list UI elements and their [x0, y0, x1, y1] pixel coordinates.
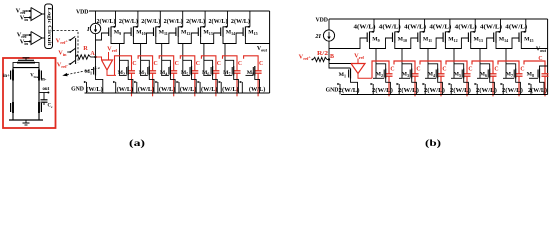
transistor M13 label (b)	[474, 37, 483, 43]
transistor M13 (PMOS, b)	[468, 19, 475, 43]
transistor M9 (PMOS, b)	[367, 19, 374, 43]
switch S3	[69, 61, 76, 65]
capacitor C lower wire (red, b)	[440, 76, 442, 96]
wire gate bus M3	[140, 74, 148, 76]
wire drain M10 ladder column	[133, 37, 149, 75]
svg-text:Logic Circuit: Logic Circuit	[46, 8, 51, 46]
svg-text:C: C	[175, 61, 179, 67]
opamp inset out wire	[39, 92, 49, 94]
transistor M5 (NMOS, b)	[449, 69, 469, 95]
wire drain M13 ladder column	[201, 37, 213, 75]
svg-text:2(W/L): 2(W/L)	[424, 87, 445, 94]
svg-text:Vout: Vout	[257, 46, 268, 53]
svg-text:Vbias: Vbias	[30, 74, 40, 80]
Vref label (red, a)	[107, 46, 117, 54]
transistor M15 2(W/L) label	[231, 18, 250, 25]
svg-text:2(W/L): 2(W/L)	[186, 18, 205, 25]
switch S1	[69, 37, 76, 41]
svg-text:2(W/L): 2(W/L)	[339, 87, 360, 94]
transistor M14 label (b)	[499, 37, 508, 43]
wire drain M15 to Vout column (b)	[521, 43, 547, 49]
wire drain M14 ladder column (b)	[496, 43, 516, 78]
svg-text:2(W/L): 2(W/L)	[164, 18, 183, 25]
capacitor C lower wire (red, b)	[388, 76, 390, 96]
caption (a)	[129, 138, 145, 148]
svg-text:VDD: VDD	[315, 18, 328, 24]
transistor M7 2(W/L) label (b)	[502, 87, 523, 94]
capacitor C lower wire (red, b)	[414, 76, 416, 96]
capacitor C (red, b)	[464, 74, 471, 76]
opamp inset Cc label	[48, 104, 53, 110]
current source I	[90, 23, 100, 33]
transistor M15 label	[248, 30, 257, 36]
wire drain M10 ladder column (b)	[395, 43, 412, 78]
svg-text:2(W/L): 2(W/L)	[231, 18, 250, 25]
red bus staple 3 (red, b)	[394, 61, 415, 74]
wire gate bus M2 (b)	[373, 77, 384, 79]
transistor M1 (NMOS, b)	[337, 69, 357, 95]
transistor M8 label	[247, 70, 254, 76]
svg-text:C: C	[217, 61, 221, 67]
capacitor C label (red)	[175, 61, 179, 67]
svg-text:M11: M11	[423, 37, 432, 43]
red bus staple 4 (red, b)	[420, 61, 441, 74]
VDD label	[76, 10, 89, 16]
opamp inset out label	[43, 87, 50, 92]
Vout column (b)	[547, 19, 549, 95]
svg-text:4(W/L): 4(W/L)	[429, 24, 451, 31]
svg-text:out: out	[43, 87, 50, 92]
wire drain M11 ladder column	[156, 37, 171, 75]
wire drain M15 to Vout column	[245, 37, 269, 44]
transistor M11 4(W/L) label (b)	[404, 24, 426, 31]
capacitor C (red)	[170, 71, 177, 73]
current source I label	[86, 26, 90, 33]
transistor M14 (PMOS, b)	[494, 19, 501, 43]
capacitor C label (red)	[217, 61, 221, 67]
svg-text:in+: in+	[3, 74, 10, 79]
comparator U1 output wire	[42, 13, 45, 15]
svg-text:M12: M12	[448, 37, 457, 43]
svg-text:(W/L): (W/L)	[138, 86, 155, 93]
transistor M12 (PMOS)	[176, 11, 183, 37]
transistor M3 2(W/L) label (b)	[398, 87, 419, 94]
red bus staple 8 (red)	[244, 56, 259, 71]
red bus staple 5 (red, b)	[446, 61, 467, 74]
wire node B to buffer input (b)	[329, 63, 351, 65]
wire gate bus M4	[161, 74, 169, 76]
transistor M5 label (b)	[454, 72, 461, 78]
wire node A to buffer input (red)	[96, 57, 102, 60]
switch S2	[67, 49, 75, 53]
comparator U2 input label Vref-	[17, 32, 29, 40]
red bus staple 3 (red)	[138, 56, 153, 71]
transistor M7 (W/L) label	[222, 86, 239, 93]
opamp inset output NMOS right	[39, 102, 41, 113]
dashed control line from logic circuit to switches	[53, 31, 78, 63]
svg-text:M13: M13	[203, 30, 212, 36]
wire gate bus M3 (b)	[399, 77, 410, 79]
svg-text:C: C	[442, 67, 446, 73]
svg-text:(W/L): (W/L)	[180, 86, 197, 93]
capacitor C label (red)	[154, 61, 158, 67]
transistor M7 (NMOS, b)	[501, 69, 521, 95]
resistor R/2	[313, 57, 327, 61]
wire drain M12 ladder column (b)	[445, 43, 463, 78]
Vref label (red, b)	[354, 53, 364, 61]
resistor R	[76, 55, 91, 59]
capacitor C (red)	[212, 71, 219, 73]
capacitor C label (red)	[259, 61, 263, 67]
buffer amplifier A1 (red triangle)	[102, 60, 113, 70]
svg-text:M4: M4	[428, 72, 435, 78]
transistor M5 2(W/L) label (b)	[450, 87, 471, 94]
transistor M13 label	[203, 30, 212, 36]
svg-text:2(W/L): 2(W/L)	[119, 18, 138, 25]
capacitor C lower wire (red)	[173, 73, 175, 96]
wire gate bus M4 (b)	[425, 77, 436, 79]
svg-text:M14: M14	[499, 37, 508, 43]
transistor M15 (PMOS, b)	[519, 19, 526, 43]
svg-text:Cc: Cc	[48, 104, 53, 110]
wire drain M11 ladder column (b)	[420, 43, 438, 78]
transistor M11 (PMOS)	[154, 11, 161, 37]
transistor M4 2(W/L) label (b)	[424, 87, 445, 94]
red bus staple 8 (red, b)	[524, 61, 545, 74]
capacitor C label (red, b)	[442, 67, 446, 73]
logic circuit block	[45, 4, 53, 49]
wire gate M14 to previous drain column (b)	[480, 38, 494, 49]
svg-text:I: I	[86, 26, 90, 33]
svg-text:2(W/L): 2(W/L)	[476, 87, 497, 94]
comparator U2 input label Vin	[20, 39, 29, 47]
switch S1 label Vref+ (red)	[56, 38, 69, 46]
switch S3 label Vref- (red)	[57, 62, 69, 70]
transistor M13 2(W/L) label	[186, 18, 205, 25]
wire node B to M1 drain (b)	[329, 60, 351, 69]
capacitor C lower wire (red)	[194, 73, 196, 96]
svg-text:C: C	[494, 67, 498, 73]
svg-text:2(W/L): 2(W/L)	[450, 87, 471, 94]
svg-text:2(W/L): 2(W/L)	[97, 18, 116, 25]
transistor M6 label (b)	[480, 72, 487, 78]
capacitor C label (red, b)	[538, 56, 542, 62]
VDD rail	[89, 10, 270, 12]
wire gate bus M6 (b)	[477, 77, 488, 79]
transistor M2 label (b)	[376, 72, 383, 78]
svg-text:(W/L): (W/L)	[117, 86, 134, 93]
VDD label (b)	[315, 18, 328, 24]
transistor M11 2(W/L) label	[141, 18, 160, 25]
switch S2 label Vin (red)	[58, 50, 67, 58]
transistor M12 2(W/L) label	[164, 18, 183, 25]
transistor M4 (NMOS)	[155, 66, 175, 93]
capacitor C lower wire (red)	[236, 73, 238, 96]
svg-text:M12: M12	[181, 30, 190, 36]
svg-text:M10: M10	[136, 30, 145, 36]
capacitor C label (red)	[132, 61, 136, 67]
transistor M6 label	[202, 70, 209, 76]
capacitor C (red, b)	[438, 74, 445, 76]
wire gate M12 to previous drain column (b)	[428, 38, 443, 49]
svg-text:M15: M15	[248, 30, 257, 36]
red bus staple 4 (red)	[159, 56, 174, 71]
svg-text:M7: M7	[506, 72, 513, 78]
GND rail (a)	[85, 92, 270, 94]
transistor M12 label	[181, 30, 190, 36]
capacitor C label (red, b)	[390, 67, 394, 73]
svg-text:2(W/L): 2(W/L)	[141, 18, 160, 25]
transistor M8 (W/L) label	[249, 86, 266, 93]
red bus staple 2 (red, b)	[372, 61, 389, 78]
wire gate bus M7	[224, 74, 232, 76]
svg-text:2(W/L): 2(W/L)	[502, 87, 523, 94]
transistor M2 2(W/L) label (b)	[372, 87, 393, 94]
svg-text:C: C	[259, 61, 263, 67]
opamp inset right rail	[38, 68, 40, 120]
opamp inset in+ label	[3, 74, 10, 79]
svg-text:(a): (a)	[129, 138, 145, 148]
svg-text:VDD: VDD	[76, 10, 89, 16]
svg-text:C: C	[196, 61, 200, 67]
comparator U1 input label Vin	[20, 15, 29, 23]
transistor M8 (NMOS, b)	[528, 69, 544, 95]
transistor M12 label (b)	[448, 37, 457, 43]
capacitor C label (red, b)	[416, 67, 420, 73]
svg-text:GND: GND	[71, 87, 84, 93]
node A label (red)	[90, 51, 95, 57]
svg-text:M8: M8	[527, 72, 534, 78]
capacitor C (red, b)	[542, 74, 549, 76]
transistor M2 (NMOS, b)	[371, 69, 391, 95]
wire Vref+ to resistor	[311, 59, 313, 61]
capacitor C (red)	[255, 71, 262, 73]
transistor M2 label	[118, 70, 125, 76]
svg-text:M5: M5	[454, 72, 461, 78]
wire gate bus M7 (b)	[503, 77, 514, 79]
transistor M5 (NMOS)	[176, 66, 196, 93]
current source 2I	[323, 30, 334, 41]
svg-text:C: C	[538, 56, 542, 62]
transistor M1 2(W/L) label (b)	[339, 87, 360, 94]
svg-text:C: C	[132, 61, 136, 67]
svg-text:C: C	[154, 61, 158, 67]
current source 2I wire	[328, 19, 330, 60]
transistor M15 4(W/L) label (b)	[505, 24, 527, 31]
wire gate M9 to node B column (b)	[329, 38, 367, 49]
capacitor C (red)	[128, 71, 135, 73]
wire drain M9 ladder column (b)	[370, 43, 386, 78]
capacitor C (red)	[191, 71, 198, 73]
comparator U2 input wires	[23, 34, 31, 43]
wire drain M9 ladder column	[111, 37, 128, 75]
comparator U2 output wire	[42, 37, 45, 39]
transistor M4 label (b)	[428, 72, 435, 78]
transistor M2 (NMOS)	[113, 66, 133, 93]
VDD rail (b)	[329, 18, 548, 20]
wire buffer output (red, b)	[358, 74, 372, 79]
transistor M5 label	[181, 70, 188, 76]
wire Vref to buffer (red)	[108, 52, 110, 60]
transistor M8 label (b)	[527, 72, 534, 78]
dashed arrow buffer A1 to opamp inset	[62, 68, 100, 76]
capacitor C lower wire (red)	[152, 73, 154, 96]
transistor M3 (NMOS)	[134, 66, 154, 93]
transistor M7 (NMOS)	[219, 66, 239, 93]
transistor M9 4(W/L) label (b)	[354, 24, 376, 31]
capacitor C label (red, b)	[468, 67, 472, 73]
comparator U1	[31, 8, 42, 21]
capacitor C (red, b)	[386, 74, 393, 76]
svg-text:(W/L): (W/L)	[222, 86, 239, 93]
svg-text:M15: M15	[524, 37, 533, 43]
red bus staple 5 (red)	[180, 56, 195, 71]
capacitor C (red, b)	[490, 74, 497, 76]
opamp inset input PMOS left	[11, 70, 13, 81]
transistor M5 (W/L) label	[180, 86, 197, 93]
capacitor C lower wire (red, b)	[492, 76, 494, 96]
Vout label (b)	[536, 47, 547, 54]
wire drain M13 ladder column (b)	[471, 43, 490, 78]
transistor M3 label	[139, 70, 146, 76]
wire buffer A1 output (red)	[107, 70, 116, 75]
svg-text:M14: M14	[226, 30, 235, 36]
svg-text:in-: in-	[41, 78, 47, 83]
svg-text:B: B	[330, 54, 334, 60]
opamp inset top link	[13, 67, 39, 69]
transistor M6 (W/L) label	[201, 86, 218, 93]
wire resistor to node A	[91, 56, 96, 58]
svg-text:A: A	[90, 51, 95, 57]
capacitor C label (red)	[196, 61, 200, 67]
transistor M10 (PMOS, b)	[393, 19, 400, 43]
capacitor C lower wire (red)	[215, 73, 217, 96]
buffer amplifier A1 (red triangle, b)	[351, 64, 365, 74]
opamp inset tail PMOS (horizontal)	[13, 58, 39, 68]
svg-text:2I: 2I	[314, 33, 321, 40]
transistor M8 (NMOS)	[240, 66, 260, 93]
transistor M8 2(W/L) label (b)	[528, 87, 547, 94]
svg-text:M6: M6	[480, 72, 487, 78]
node A junction dot	[94, 56, 96, 58]
transistor M11 label (b)	[423, 37, 432, 43]
wire gate M12 to previous drain column	[162, 33, 176, 44]
transistor M4 label	[160, 70, 167, 76]
transistor M10 label (b)	[398, 37, 407, 43]
wire gate bus M6	[203, 74, 211, 76]
svg-text:(W/L): (W/L)	[249, 86, 266, 93]
transistor M11 label	[159, 30, 168, 36]
opamp inset input PMOS right	[39, 70, 41, 81]
svg-text:2(W/L): 2(W/L)	[528, 87, 547, 94]
transistor M1 label	[85, 69, 92, 75]
transistor M1 (NMOS)	[84, 66, 103, 93]
svg-text:R: R	[83, 45, 88, 52]
transistor M10 4(W/L) label (b)	[379, 24, 401, 31]
wire gate M11 to previous drain column	[141, 33, 154, 44]
current source I wire	[95, 11, 97, 57]
opamp inset compensation capacitor Cc	[41, 93, 48, 106]
capacitor C lower wire (red, b)	[518, 76, 520, 96]
transistor M11 (PMOS, b)	[418, 19, 425, 43]
node B label (red)	[330, 54, 334, 60]
transistor M10 (PMOS)	[131, 11, 138, 37]
capacitor C lower wire (red, b)	[466, 76, 468, 96]
wire gate M13 to previous drain column	[183, 33, 199, 44]
wire node A to M1 drain	[95, 57, 97, 66]
svg-text:M13: M13	[474, 37, 483, 43]
resistor R label (red)	[83, 45, 88, 52]
red bus staple 7 (red)	[223, 56, 238, 71]
svg-text:4(W/L): 4(W/L)	[404, 24, 426, 31]
svg-text:2(W/L): 2(W/L)	[372, 87, 393, 94]
opamp inset Vbias label	[30, 74, 40, 80]
svg-text:(W/L): (W/L)	[159, 86, 176, 93]
transistor M15 label (b)	[524, 37, 533, 43]
svg-text:M9: M9	[114, 30, 121, 36]
wire gate M11 to previous drain column (b)	[402, 38, 418, 49]
wire gate M10 to previous drain column	[120, 33, 132, 44]
svg-text:4(W/L): 4(W/L)	[379, 24, 401, 31]
svg-text:M10: M10	[398, 37, 407, 43]
transistor M13 4(W/L) label (b)	[455, 24, 477, 31]
Vref+ input label (red, b)	[299, 54, 312, 62]
switch common rail wire	[75, 38, 77, 64]
red bus staple 6 (red)	[201, 56, 216, 71]
svg-text:C: C	[390, 67, 394, 73]
capacitor C lower wire (red)	[257, 73, 259, 96]
svg-text:4(W/L): 4(W/L)	[505, 24, 527, 31]
transistor M10 label	[136, 30, 145, 36]
capacitor C (red, b)	[516, 74, 523, 76]
transistor M7 label	[223, 70, 230, 76]
wire drain M12 ladder column	[178, 37, 191, 75]
transistor M14 label	[226, 30, 235, 36]
svg-text:4(W/L): 4(W/L)	[480, 24, 502, 31]
svg-text:C: C	[520, 67, 524, 73]
svg-text:4(W/L): 4(W/L)	[455, 24, 477, 31]
transistor M9 label	[114, 30, 121, 36]
red bus staple 7 (red, b)	[498, 61, 519, 74]
wire gate bus M5 (b)	[451, 77, 462, 79]
wire drain M14 ladder column	[223, 37, 234, 75]
transistor M9 label (b)	[372, 37, 379, 43]
wire gate bus M8	[246, 74, 254, 76]
wire Vref to buffer (red, b)	[357, 59, 359, 64]
GND label (b)	[326, 88, 339, 94]
capacitor C lower wire (red)	[131, 73, 133, 96]
svg-text:R/2: R/2	[317, 51, 328, 57]
comparator U1 input label Vref+	[16, 8, 29, 16]
opamp inset left rail	[12, 68, 14, 120]
transistor M14 4(W/L) label (b)	[480, 24, 502, 31]
transistor M4 (W/L) label	[159, 86, 176, 93]
wire drain M8 to Vout column (b)	[540, 66, 548, 69]
svg-text:M2: M2	[376, 72, 383, 78]
current source 2I label	[314, 33, 321, 40]
svg-text:M1: M1	[339, 72, 346, 78]
capacitor C (red)	[149, 71, 156, 73]
transistor M9 (PMOS)	[109, 11, 116, 37]
opamp inset output NMOS left	[11, 102, 13, 113]
wire gate bus M5	[182, 74, 190, 76]
svg-text:GND: GND	[326, 88, 339, 94]
wire gate bus M2	[119, 74, 127, 76]
transistor M3 (NMOS, b)	[397, 69, 417, 95]
transistor M6 (NMOS, b)	[475, 69, 495, 95]
svg-text:(b): (b)	[425, 138, 441, 148]
transistor M3 (W/L) label	[138, 86, 155, 93]
